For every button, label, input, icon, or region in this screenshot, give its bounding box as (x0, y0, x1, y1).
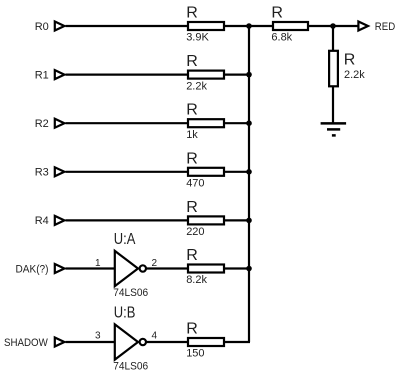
svg-text:R: R (186, 247, 198, 264)
wire resistor R4 to bus (224, 219, 250, 221)
wire R4 (66, 219, 190, 221)
resistor R 470 (186, 150, 224, 189)
svg-text:SHADOW: SHADOW (4, 337, 48, 349)
junction bus row R2 (246, 120, 252, 126)
junction bus row R1 (246, 72, 252, 78)
output port RED (358, 22, 368, 31)
junction bus row R3 (246, 169, 252, 175)
resistor R 2.2k row R1 (186, 53, 224, 92)
svg-text:R: R (186, 102, 198, 119)
wire R0 to R1 resistor (66, 25, 190, 27)
svg-text:R0: R0 (35, 21, 49, 33)
svg-text:RED: RED (375, 21, 395, 33)
svg-text:2: 2 (152, 258, 158, 269)
wire R2 (66, 122, 190, 124)
svg-text:DAK(?): DAK(?) (16, 263, 49, 275)
input port DAK (55, 264, 65, 273)
svg-text:8.2k: 8.2k (186, 274, 207, 286)
resistor R 8.2k (186, 247, 224, 286)
wire 6.8k to RED port (308, 25, 358, 27)
svg-text:R3: R3 (35, 167, 49, 179)
svg-text:74LS06: 74LS06 (113, 361, 148, 373)
junction RED branch (330, 23, 336, 29)
junction bus row U:A (246, 266, 252, 272)
resistor R 6.8k (271, 5, 308, 44)
svg-text:U:A: U:A (114, 231, 136, 248)
resistor R 3.9K (186, 5, 224, 44)
svg-text:U:B: U:B (114, 305, 136, 322)
wire resistor R2 to bus (224, 122, 250, 124)
wire resistor to bus (224, 25, 250, 27)
svg-text:R: R (186, 150, 198, 167)
svg-text:R: R (186, 321, 198, 338)
wire R1 (66, 73, 190, 75)
svg-text:6.8k: 6.8k (271, 32, 292, 44)
input port R0 (55, 22, 65, 31)
wire resistor 8.2k to bus (224, 267, 250, 269)
wire SHADOW to U:B (66, 341, 115, 343)
ground (321, 123, 347, 135)
input port R3 (55, 167, 65, 176)
svg-text:R2: R2 (35, 118, 49, 130)
wire junction down to 2.2k (332, 26, 334, 51)
svg-text:3: 3 (95, 331, 101, 342)
svg-text:1: 1 (95, 258, 101, 269)
svg-text:2.2k: 2.2k (344, 69, 365, 81)
wire resistor R3 to bus (224, 171, 250, 173)
wire 2.2k to ground (332, 86, 334, 123)
wire R3 (66, 171, 190, 173)
svg-text:4: 4 (152, 331, 158, 342)
svg-text:220: 220 (186, 226, 204, 238)
svg-text:470: 470 (186, 178, 204, 190)
wire bus to 6.8k (249, 25, 274, 27)
resistor R 1k (186, 102, 224, 141)
svg-text:R: R (186, 199, 198, 216)
svg-text:R: R (186, 53, 198, 70)
svg-text:R1: R1 (35, 69, 49, 81)
junction bus row R0 (246, 23, 252, 29)
svg-text:R: R (186, 5, 198, 22)
svg-text:2.2k: 2.2k (186, 80, 207, 92)
input port R4 (55, 216, 65, 225)
svg-text:3.9K: 3.9K (186, 32, 209, 44)
wire DAK to U:A (66, 267, 115, 269)
svg-text:1k: 1k (186, 129, 198, 141)
wire resistor R1 to bus (224, 73, 250, 75)
wire resistor 150 to bus corner (224, 341, 250, 343)
inverter U:B 74LS06 (113, 305, 148, 373)
svg-text:R: R (271, 5, 283, 22)
svg-text:150: 150 (186, 348, 204, 360)
wire U:A to 8.2k (147, 267, 190, 269)
svg-text:R4: R4 (35, 215, 49, 227)
input port SHADOW (55, 338, 65, 347)
input port R2 (55, 119, 65, 128)
resistor R 150 (186, 321, 224, 360)
resistor R 220 (186, 199, 224, 238)
wire U:B to 150 (147, 341, 190, 343)
svg-text:74LS06: 74LS06 (113, 287, 148, 299)
input port R1 (55, 70, 65, 79)
junction bus row R4 (246, 218, 252, 224)
svg-text:R: R (344, 51, 356, 68)
inverter U:A 74LS06 (113, 231, 148, 299)
resistor R 2.2k vertical (329, 51, 365, 87)
bus wire vertical (248, 26, 250, 342)
